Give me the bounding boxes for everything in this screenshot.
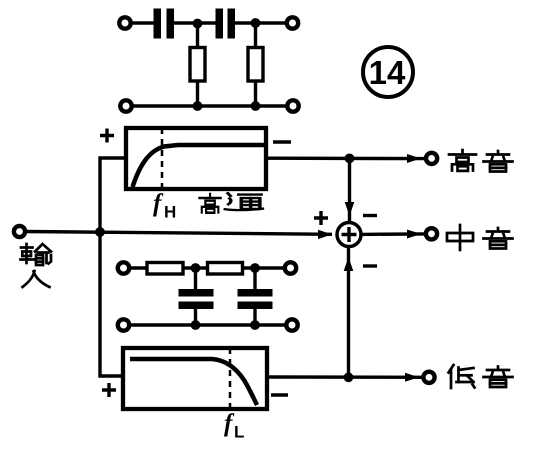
wire (bottom rail) [133, 104, 287, 107]
block U1 (high-pass filter) [126, 128, 266, 189]
terminal (mid out) [426, 228, 437, 239]
block U2 (low-pass filter) [123, 348, 267, 409]
terminal (top-right of CR ladder) [287, 17, 298, 28]
resistor R2 [248, 48, 263, 82]
wire [253, 268, 256, 290]
node (dashed fH marker) [161, 128, 164, 189]
capacitor C2 [216, 9, 236, 39]
terminal (bottom-left of CR ladder) [120, 100, 131, 111]
terminal (bottom-left of RC ladder) [118, 319, 129, 330]
figure label (14) [363, 47, 413, 97]
label - (HP output polarity) [273, 140, 291, 143]
label - (treble sign) [363, 214, 377, 217]
wire (input bus) [26, 232, 332, 235]
label 高音 [449, 150, 513, 172]
wire [130, 266, 148, 269]
wire (LP out to bass terminal) [267, 375, 423, 379]
wire (dropper to LP) [100, 232, 123, 376]
arrow (treble) [407, 154, 421, 163]
wire [194, 309, 197, 325]
node [191, 320, 201, 330]
wire [132, 21, 156, 24]
arrow (mid) [407, 230, 421, 239]
wire [174, 21, 216, 24]
node [193, 101, 203, 111]
terminal (input) [14, 226, 25, 237]
wire [254, 23, 257, 48]
wire (bottom rail) [130, 323, 286, 326]
label + (input sign) [314, 211, 328, 225]
label 输入 [21, 244, 52, 287]
label + (inside summer) [342, 227, 357, 242]
resistor R3 [147, 263, 183, 275]
node (junction C1/C2/R1) [193, 19, 203, 29]
resistor R1 [190, 48, 205, 82]
wire [254, 81, 257, 106]
node [251, 101, 261, 111]
node (bass/sum junction) [344, 372, 354, 382]
svg-text:L: L [234, 423, 244, 442]
wire (LP response curve) [130, 359, 257, 405]
terminal (treble out) [426, 153, 437, 164]
node [250, 320, 260, 330]
arrow (bass) [405, 373, 419, 382]
svg-text:f: f [153, 190, 164, 217]
label 低音 [449, 365, 513, 388]
svg-text:H: H [164, 203, 176, 222]
terminal (bottom-right of RC ladder) [286, 319, 297, 330]
wire [253, 309, 256, 325]
arrow (into summer from bottom) [344, 257, 354, 271]
svg-text:14: 14 [369, 54, 406, 91]
wire (HP out to treble terminal) [266, 156, 425, 160]
wire [196, 81, 199, 106]
capacitor C1 [154, 9, 175, 39]
wire [196, 23, 199, 48]
wire [243, 266, 285, 269]
summing junction U3 [337, 223, 361, 247]
label 高通 [199, 193, 262, 212]
terminal (bottom-right of CR ladder) [287, 100, 298, 111]
label fH [153, 190, 176, 222]
node (input junction) [95, 227, 105, 237]
terminal (right of RC ladder) [285, 262, 296, 273]
terminal (top-left of CR ladder) [119, 17, 130, 28]
arrow (into summer from top) [345, 202, 355, 216]
wire [183, 266, 208, 269]
wire [194, 268, 197, 290]
wire (down from treble line to summer) [348, 158, 351, 223]
resistor R4 [208, 263, 243, 275]
node [250, 263, 260, 273]
arrow (input into summer) [318, 230, 332, 239]
label + (LP input polarity) [102, 383, 116, 397]
label 中音 [447, 225, 513, 250]
wire (up from bass line to summer) [347, 246, 350, 377]
wire (riser to HP) [100, 158, 126, 232]
wire [235, 21, 286, 24]
label + (HP input polarity) [100, 129, 114, 143]
capacitor C3 [179, 289, 214, 309]
terminal (left of RC ladder) [118, 262, 129, 273]
wire (HP response curve) [133, 145, 265, 187]
node (treble/sum junction) [345, 154, 355, 164]
label - (LP output polarity) [271, 393, 288, 396]
label - (bass sign) [363, 264, 377, 267]
node [191, 263, 201, 273]
terminal (bass out) [423, 372, 434, 383]
node (junction C2/R2) [251, 18, 261, 28]
capacitor C4 [238, 289, 273, 309]
node (dashed fL marker) [229, 348, 232, 409]
wire (summer to mid terminal) [361, 232, 425, 236]
label fL [224, 410, 244, 442]
